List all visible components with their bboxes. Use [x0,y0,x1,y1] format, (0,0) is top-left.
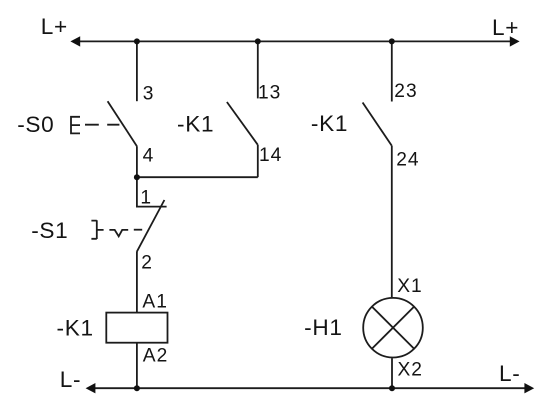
svg-text:-K1: -K1 [57,316,94,341]
svg-text:A2: A2 [143,345,168,366]
contact S1 top terminal L-bar (terminal 1) [137,177,167,206]
svg-text:1: 1 [140,188,152,209]
junction node rail-branch2 [255,38,261,44]
svg-text:23: 23 [394,81,417,102]
svg-text:L-: L- [499,361,521,386]
wire top rail L+ [78,40,511,42]
svg-text:-S1: -S1 [31,218,68,243]
contact K1 23-24 blade [363,103,392,146]
contact S0 blade [108,101,137,146]
wire branch1 top (terminal 3) [136,41,138,101]
arrow bottom-right [524,383,534,393]
svg-text:13: 13 [258,82,281,103]
svg-text:L+: L+ [41,14,68,39]
wire bottom rail L- [93,387,526,389]
dashed link S0 [85,124,119,126]
arrow bottom-left [86,383,96,393]
svg-text:-S0: -S0 [17,112,54,137]
lamp H1 circle [363,298,423,358]
wire S0 bottom (terminal 4 to node) [136,146,138,177]
svg-text:-H1: -H1 [304,315,343,340]
lamp H1 cross [372,307,414,349]
svg-text:2: 2 [141,252,153,273]
junction node bottom rail coil [134,385,140,391]
svg-text:3: 3 [143,84,155,105]
svg-text:X2: X2 [398,360,423,381]
junction node A (S0/S1/K1-14) [134,174,140,180]
actuator S1 spring zigzag [109,230,128,236]
svg-text:24: 24 [396,149,419,170]
svg-text:14: 14 [259,145,282,166]
svg-text:-K1: -K1 [311,111,348,136]
wire X2 to bottom rail [391,358,393,388]
wire A2 to bottom rail [136,343,138,389]
svg-text:X1: X1 [397,276,422,297]
contact S1 blade (NC) [137,200,165,252]
wire branch3 top (terminal 23) [391,41,393,101]
svg-text:L-: L- [60,367,81,392]
svg-text:L+: L+ [492,15,519,40]
junction node rail-branch1 [134,38,140,44]
wire 14 down to node row [257,145,259,177]
wire S1 bottom (terminal 2 to A1) [136,252,138,313]
svg-text:4: 4 [143,145,155,166]
arrow top-right [510,36,520,46]
wire node row horizontal (14 to node A) [137,176,258,178]
actuator S0 mushroom head E [71,116,80,134]
svg-text:-K1: -K1 [177,112,214,137]
contact K1 13-14 blade [227,102,258,145]
dashed link S1 [134,229,142,231]
junction node bottom rail lamp [389,385,395,391]
coil K1 box [106,313,167,343]
arrow top-left [70,36,80,46]
actuator S1 pushbutton bracket [91,220,103,239]
svg-text:A1: A1 [142,292,167,313]
junction node rail-branch3 [389,38,395,44]
wire 24 down to lamp X1 [391,146,393,297]
wire branch2 top (terminal 13) [257,41,259,98]
